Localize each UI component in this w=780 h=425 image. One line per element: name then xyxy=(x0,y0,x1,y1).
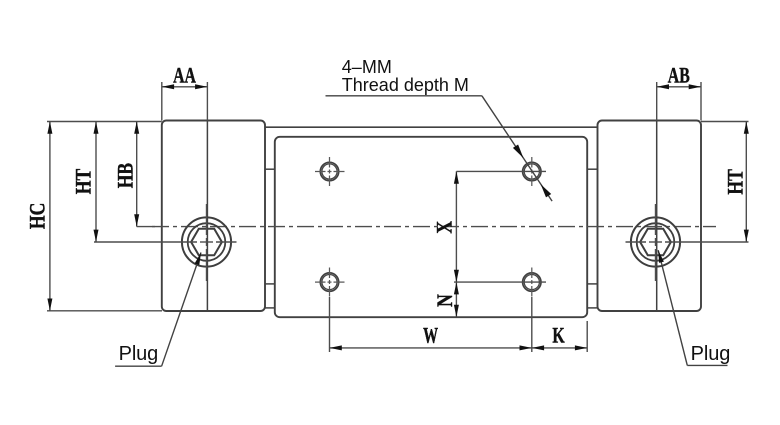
HB top arrow xyxy=(134,122,139,134)
left block internal line xyxy=(206,121,208,312)
hole bottom-right inner xyxy=(524,275,539,290)
left step tick 2 xyxy=(265,283,275,285)
svg-text:AB: AB xyxy=(668,64,690,88)
X upper extension line xyxy=(456,170,546,172)
plug left horizontal crosshair / HT extension xyxy=(94,241,197,243)
W left extension line xyxy=(329,297,331,352)
right step tick 3 xyxy=(587,307,597,309)
hole top-right vertical crosshair xyxy=(531,157,533,168)
X top arrow xyxy=(454,171,459,183)
right step tick 1 xyxy=(587,168,597,170)
K right arrow xyxy=(575,345,587,350)
right end block xyxy=(598,121,702,312)
W dimension line xyxy=(330,347,532,349)
top extension line (HC/HT/HB shared) xyxy=(47,121,162,123)
plug right outer circle xyxy=(631,217,680,266)
hole bottom-left inner xyxy=(322,275,337,290)
svg-text:X: X xyxy=(433,220,457,233)
thread note leader line xyxy=(482,96,552,201)
AA dimension line xyxy=(162,86,208,88)
right step tick 2 xyxy=(587,283,597,285)
svg-text:Thread depth M: Thread depth M xyxy=(342,75,469,95)
thread leader arrow lower xyxy=(541,184,552,197)
svg-text:Plug: Plug xyxy=(691,343,731,365)
HT right bottom arrow xyxy=(744,230,749,242)
HT left dimension line xyxy=(95,122,97,242)
plug right vertical crosshair xyxy=(655,204,657,235)
left step tick 3 xyxy=(265,307,275,309)
hole top-right outer xyxy=(523,162,541,180)
AA right arrow xyxy=(195,84,207,89)
HC top arrow xyxy=(47,122,52,134)
center plate xyxy=(275,137,587,317)
HT right top arrow xyxy=(744,122,749,134)
AB extension lines xyxy=(656,82,658,121)
HT right dimension line xyxy=(745,122,747,242)
hole top-left crosshair xyxy=(315,171,326,173)
main center line xyxy=(152,226,716,228)
HC bottom arrow xyxy=(47,299,52,311)
N down arrow xyxy=(454,305,459,317)
plug left hexagon xyxy=(191,229,222,256)
W left arrow xyxy=(330,345,342,350)
HB bottom arrow xyxy=(134,214,139,226)
rail top line xyxy=(265,126,598,128)
plug left outer circle xyxy=(182,217,231,266)
W right arrow xyxy=(520,345,532,350)
plug left leader arrow xyxy=(195,253,201,266)
AA extension lines xyxy=(161,82,163,121)
plug right inner circle xyxy=(637,223,675,261)
plug left vertical crosshair xyxy=(206,204,208,235)
HC dimension line xyxy=(49,122,51,311)
svg-text:HT: HT xyxy=(724,169,748,194)
right block internal line xyxy=(656,121,658,312)
plug left leader line xyxy=(162,253,201,367)
K left arrow xyxy=(532,345,544,350)
HT left top arrow xyxy=(94,122,99,134)
AB left arrow xyxy=(657,84,669,89)
plug right hexagon xyxy=(640,229,671,256)
svg-text:N: N xyxy=(433,294,457,307)
thread note underline xyxy=(326,95,482,97)
left step tick 1 xyxy=(265,168,275,170)
HT left bottom arrow xyxy=(94,230,99,242)
K dimension line xyxy=(532,347,587,349)
hole top-left inner xyxy=(322,164,337,179)
AB right arrow xyxy=(689,84,701,89)
hole top-left outer xyxy=(320,162,338,180)
bottom extension line (HC) xyxy=(47,310,162,312)
svg-text:4–MM: 4–MM xyxy=(342,57,392,77)
K right extension line xyxy=(586,321,588,352)
HB dimension line xyxy=(136,122,138,227)
hole top-right inner xyxy=(524,164,539,179)
plug right leader arrow xyxy=(658,250,664,263)
X/N dimension line xyxy=(455,171,457,317)
N up arrow xyxy=(454,282,459,294)
plug left underline xyxy=(115,365,162,367)
svg-text:HB: HB xyxy=(114,163,138,188)
AA left arrow xyxy=(162,84,174,89)
HT right top extension xyxy=(701,121,749,123)
svg-text:K: K xyxy=(552,324,564,348)
plug left inner circle xyxy=(188,223,226,261)
plug right underline xyxy=(687,364,727,366)
hole bottom-left crosshair xyxy=(315,281,326,283)
W/K middle extension line xyxy=(531,297,533,352)
svg-text:HT: HT xyxy=(72,169,96,194)
svg-text:HC: HC xyxy=(26,203,50,229)
hole bottom-left outer xyxy=(320,273,338,291)
X bottom arrow xyxy=(454,270,459,282)
hole bottom-right vertical crosshair xyxy=(531,268,533,279)
left end block xyxy=(162,121,265,312)
AB dimension line xyxy=(657,86,701,88)
plug right leader line xyxy=(658,250,687,365)
svg-text:AA: AA xyxy=(173,64,196,88)
svg-text:Plug: Plug xyxy=(119,343,159,365)
plug right horizontal crosshair / right HT extension xyxy=(626,241,647,243)
svg-text:W: W xyxy=(423,324,438,349)
hole bottom-right outer xyxy=(523,273,541,291)
X lower extension line (hole row) xyxy=(454,281,546,283)
HB bottom extension (solid segment of center line) xyxy=(137,226,155,228)
thread leader arrow upper xyxy=(513,145,524,159)
